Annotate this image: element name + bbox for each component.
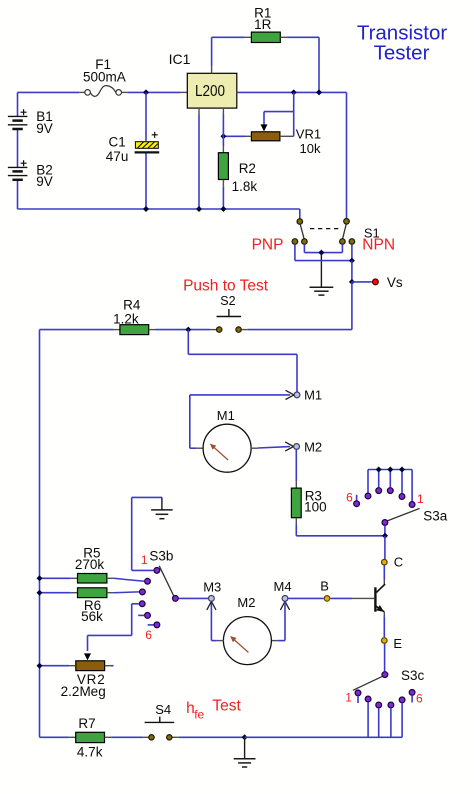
switch S1 throw NPN inner — [340, 239, 346, 245]
switch S1 pole1 lever — [300, 224, 304, 239]
svg-text:Test: Test — [212, 698, 241, 715]
svg-text:M1: M1 — [217, 408, 235, 423]
svg-text:M3: M3 — [203, 579, 221, 594]
switch S1 throw NPN outer — [349, 239, 355, 245]
wire meter M1 top lead — [190, 394, 290, 396]
junction C1 bottom — [143, 206, 149, 212]
wire C1 bottom — [145, 154, 147, 210]
svg-text:IC1: IC1 — [169, 51, 191, 67]
wire S3a bus — [368, 469, 412, 471]
switch S3a contact 3 — [387, 488, 393, 494]
wire S3a stem4 — [378, 470, 380, 488]
switch S3c contact 5 — [399, 697, 405, 703]
switch S3a lever — [387, 508, 420, 521]
wire S3b stub5 — [138, 614, 144, 616]
wire R7 to S4 — [111, 736, 142, 738]
wire S3c stub6 — [411, 695, 413, 702]
potentiometer VR2 — [84, 653, 91, 660]
wire S1 outer bus — [294, 244, 296, 260]
resistor R7 — [69, 736, 76, 738]
terminal M4 — [282, 596, 288, 602]
terminal C — [382, 559, 388, 565]
ground S3b — [161, 497, 163, 510]
fuse F1 — [79, 91, 84, 93]
wire R6 to S3b3 — [114, 591, 139, 594]
wire fuse to IC1 — [127, 91, 180, 93]
wire down to Vs node — [351, 261, 353, 282]
svg-text:S3c: S3c — [401, 668, 425, 683]
resistor R6 — [71, 592, 78, 594]
wire S3c stem3 — [378, 708, 380, 737]
junction outer bus — [349, 258, 355, 264]
wire R1 to output rail — [287, 36, 319, 38]
terminal M3 — [209, 596, 215, 602]
resistor R3 — [295, 481, 297, 488]
switch S1 link dashed — [310, 228, 341, 230]
switch S3b contact 5 — [145, 613, 151, 619]
switch S3c contact 3 — [376, 702, 382, 708]
potentiometer VR1 — [261, 124, 268, 131]
svg-text:E: E — [393, 636, 402, 651]
wire pin into IC1 — [181, 91, 188, 93]
junction R2 bottom — [220, 206, 226, 212]
wire C node down — [384, 536, 386, 560]
svg-text:47u: 47u — [106, 149, 129, 164]
switch S3a contact 6 — [354, 501, 360, 507]
terminal M3 arrow — [207, 601, 212, 610]
resistor R4 — [113, 329, 120, 331]
switch S3b contact 3 — [140, 589, 146, 595]
wire E to S3c common — [384, 644, 386, 672]
svg-text:C: C — [394, 554, 403, 569]
switch S3c lever — [353, 676, 382, 690]
wire IC1 pin3 down — [198, 108, 200, 114]
svg-text:Tester: Tester — [374, 42, 430, 65]
capacitor C1 — [135, 142, 158, 149]
wire S3c stem5 — [401, 703, 403, 738]
switch S3c common — [382, 672, 388, 678]
switch S3a common — [382, 520, 388, 526]
wire R3 bottom — [295, 525, 297, 536]
svg-text:2.2Meg: 2.2Meg — [61, 684, 106, 699]
switch S3b common — [173, 596, 179, 602]
resistor R2 — [222, 146, 224, 153]
svg-text:100: 100 — [304, 499, 327, 514]
wire IC1 output rail — [237, 91, 347, 93]
junction R4 S2 node — [185, 327, 191, 333]
junction IC1 pin3 bottom — [196, 206, 202, 212]
svg-text:NPN: NPN — [362, 237, 395, 254]
wire Vs lead — [352, 281, 372, 283]
wire S3a stem1 — [411, 470, 413, 502]
transistor Q1 collector lead — [376, 584, 385, 592]
battery B2 — [8, 166, 28, 168]
terminal B — [324, 596, 330, 602]
switch S3c contact 4 — [388, 702, 394, 708]
svg-text:270k: 270k — [75, 557, 105, 572]
wire M2 down — [295, 449, 297, 481]
switch S1 throw PNP inner — [302, 239, 308, 245]
wire VR2 left — [40, 665, 70, 667]
switch S3b lever — [159, 566, 174, 596]
switch S3b contact 2 — [145, 578, 151, 584]
svg-text:M1: M1 — [304, 388, 322, 403]
wire S3a stem2 — [401, 470, 403, 494]
svg-text:R7: R7 — [78, 716, 95, 731]
wire VR1 wiper link — [264, 111, 294, 113]
switch S3b contact 1 — [154, 568, 160, 574]
switch S3b contact 6 — [154, 622, 160, 628]
wire VR1 right branch — [293, 92, 295, 136]
wire bottom left — [40, 736, 69, 738]
svg-text:6: 6 — [416, 692, 423, 706]
svg-text:10k: 10k — [300, 141, 321, 156]
wire S4 to ground node — [178, 736, 244, 738]
wire S3a stem5 — [367, 470, 369, 493]
resistor R5 — [71, 577, 78, 579]
wire M3 down — [211, 640, 216, 642]
wire S3b contact1 to ground — [132, 569, 154, 571]
junction R6 rail — [37, 590, 43, 596]
wire M4 down — [284, 602, 286, 641]
wire emitter down — [383, 612, 385, 617]
junction ground node — [242, 734, 248, 740]
terminal M2 — [294, 444, 300, 450]
switch S1 throw PNP outer — [292, 239, 298, 245]
wire R4 left to left rail — [40, 329, 114, 331]
wire S3b stub6 — [148, 624, 154, 626]
switch S3c contact 6 — [409, 690, 415, 696]
switch S2 — [228, 309, 230, 317]
svg-text:B: B — [320, 579, 329, 594]
svg-text:1: 1 — [345, 691, 352, 705]
wire S2 left — [188, 329, 210, 331]
junction S3a bus 3 — [387, 467, 393, 473]
wire S3c stub1 — [357, 696, 359, 703]
wire S3b common to M3 — [179, 597, 208, 599]
svg-text:500mA: 500mA — [83, 70, 126, 85]
svg-text:fe: fe — [194, 707, 204, 721]
svg-text:M4: M4 — [274, 579, 292, 594]
wire VR2 right stub — [111, 665, 114, 667]
svg-text:R2: R2 — [239, 161, 256, 176]
svg-text:S2: S2 — [220, 294, 235, 308]
op-amp IC1 L200 regulator — [187, 73, 237, 108]
switch S3a contact 2 — [399, 494, 405, 500]
svg-text:4.7k: 4.7k — [77, 744, 103, 759]
wire VR1 left lead — [223, 135, 245, 137]
wire base — [330, 597, 352, 599]
svg-text:56k: 56k — [81, 609, 103, 624]
ground S1 — [320, 253, 322, 288]
svg-text:VR1: VR1 — [296, 127, 321, 142]
wire left rail battery — [17, 92, 19, 116]
switch S3b contact 4 — [139, 601, 145, 607]
switch S3a contact 1 — [409, 502, 415, 508]
wire IC1 top pin — [211, 67, 213, 74]
battery B1 — [8, 115, 28, 117]
switch S3c contact 2 — [365, 696, 371, 702]
junction VR2 rail — [37, 663, 43, 669]
meter M2 — [271, 640, 278, 642]
junction C1 top — [143, 89, 149, 95]
wire collector — [383, 565, 385, 580]
wire S3b stub4 — [132, 603, 139, 605]
wire S3a stem3 — [389, 470, 391, 488]
svg-text:Vs: Vs — [387, 275, 403, 290]
terminal M1 — [294, 392, 300, 398]
svg-text:6: 6 — [145, 628, 152, 642]
wire S3a stub6 — [356, 495, 358, 501]
svg-text:PNP: PNP — [252, 237, 284, 254]
wire S3c stem2 — [367, 702, 369, 737]
svg-text:R4: R4 — [123, 298, 141, 313]
junction VR1 left — [220, 133, 226, 139]
switch S1 pole2 common — [344, 219, 350, 225]
terminal M4 arrow — [280, 601, 285, 610]
junction S3a bus 2 — [399, 467, 405, 473]
junction S1 ground — [318, 250, 324, 256]
svg-text:L200: L200 — [195, 83, 225, 100]
svg-text:S3b: S3b — [149, 549, 173, 564]
wire Vs node down to S2 — [351, 282, 353, 330]
svg-text:6: 6 — [346, 491, 353, 505]
wire S3a common down — [384, 525, 386, 535]
junction R5 rail — [37, 575, 43, 581]
switch S1 pole1 common — [297, 219, 303, 225]
svg-text:1.8k: 1.8k — [232, 179, 258, 194]
transistor Q1 base bar — [374, 587, 376, 611]
wire R2 bottom — [222, 186, 224, 209]
wire R5 left — [40, 577, 71, 579]
terminal Vs — [373, 279, 379, 285]
wire top rail to fuse — [18, 91, 80, 93]
ground bottom — [244, 737, 246, 759]
terminal M1 arrow — [286, 390, 295, 395]
terminal E — [382, 638, 388, 644]
svg-text:1.2k: 1.2k — [113, 312, 139, 327]
wire bottom rail — [18, 208, 300, 210]
wire R6 left — [40, 592, 71, 594]
wire VR2 wiper link — [88, 634, 132, 636]
switch S3a contact 4 — [376, 488, 382, 494]
switch S3c contact 1 — [355, 690, 361, 696]
wire S1 inner bus — [303, 244, 305, 252]
svg-text:M2: M2 — [304, 439, 322, 454]
wire bottom to S3c — [245, 736, 403, 738]
junction R1 branch — [316, 89, 322, 95]
wire S2 node down — [187, 330, 189, 355]
svg-text:S3a: S3a — [423, 509, 448, 524]
switch S4 — [159, 717, 161, 723]
svg-text:Push to Test: Push to Test — [183, 278, 269, 295]
wire R5 to S3b2 — [114, 578, 145, 581]
svg-text:M2: M2 — [237, 595, 255, 610]
switch S3a contact 5 — [365, 493, 371, 499]
transistor Q1 emitter lead — [376, 606, 384, 612]
meter M1 — [196, 447, 203, 449]
junction S3a bus 4 — [376, 467, 382, 473]
svg-text:9V: 9V — [36, 121, 53, 136]
svg-text:S4: S4 — [155, 702, 171, 717]
switch S1 pole2 lever — [343, 224, 347, 239]
terminal M2 arrow — [285, 442, 294, 447]
svg-text:C1: C1 — [109, 135, 126, 150]
wire IC1 pin2 down — [222, 108, 224, 114]
svg-text:1: 1 — [417, 492, 424, 506]
junction Vs node — [349, 279, 355, 285]
wire meter M1 right lead — [258, 447, 290, 448]
junction VR1 branch — [291, 89, 297, 95]
junction R3 S3a C node — [382, 533, 388, 539]
wire C1 branch top — [145, 92, 147, 140]
svg-text:1R: 1R — [254, 17, 272, 32]
wire R4 right — [156, 329, 189, 331]
wire M4 to B — [288, 597, 323, 599]
svg-text:1: 1 — [141, 553, 148, 567]
resistor R1 — [245, 36, 252, 38]
wire S3c stem4 — [390, 708, 392, 737]
svg-text:9V: 9V — [36, 174, 53, 189]
